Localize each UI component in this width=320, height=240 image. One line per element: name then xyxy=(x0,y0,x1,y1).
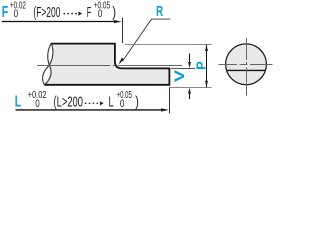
dimension line F xyxy=(2,21,115,23)
svg-text:0: 0 xyxy=(35,98,40,110)
label L with tolerance xyxy=(15,90,139,111)
dimension V arrow bottom xyxy=(189,94,191,99)
svg-text:R: R xyxy=(156,3,163,20)
dimension line L xyxy=(16,109,163,111)
svg-text:F: F xyxy=(2,4,9,21)
svg-text:): ) xyxy=(112,4,116,21)
shaft break (S-break arcs) xyxy=(43,43,53,85)
extension line F xyxy=(122,18,124,44)
shaft body fill (side view) xyxy=(45,44,170,85)
extension line P top xyxy=(125,44,212,46)
dimension line P xyxy=(206,45,208,88)
svg-text:P: P xyxy=(194,61,209,70)
svg-text:0: 0 xyxy=(120,98,125,110)
horizontal centerline (end view) xyxy=(219,64,273,66)
leader R xyxy=(123,19,171,61)
svg-text:0: 0 xyxy=(98,8,103,20)
extension line V top xyxy=(171,68,195,70)
svg-text:0: 0 xyxy=(14,8,19,20)
svg-text:(F>200: (F>200 xyxy=(33,4,60,21)
flat chord (end view) xyxy=(227,69,265,71)
dimension V arrow top xyxy=(189,54,191,63)
svg-text:(L>200: (L>200 xyxy=(54,94,84,111)
extension line L xyxy=(169,88,171,114)
shaft outline xyxy=(45,44,170,85)
extension line bottom xyxy=(169,87,212,89)
svg-text:F: F xyxy=(87,4,92,21)
centerline (side view) xyxy=(37,65,182,67)
svg-text:L: L xyxy=(15,94,21,111)
svg-text:): ) xyxy=(135,94,139,111)
svg-text:V: V xyxy=(172,70,188,82)
svg-text:L: L xyxy=(109,94,114,111)
label F with tolerance xyxy=(2,0,116,21)
end view circle xyxy=(226,44,267,85)
vertical centerline (end view) xyxy=(246,38,248,96)
